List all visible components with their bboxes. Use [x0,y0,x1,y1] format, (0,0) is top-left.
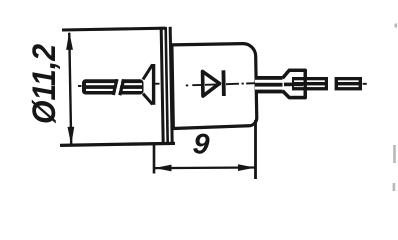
extension line top (flange diameter dim) [62,28,165,30]
wire axis dash-dot inside body [186,83,256,85]
wire axis tail dash [363,83,367,85]
extension line bottom (flange diameter dim) [60,143,175,145]
flange line 2 [166,27,168,143]
cathode flexible wire segment 2 [335,77,362,90]
cathode flexible wire segment 1 [292,77,328,90]
crimp sleeve outline restroke [283,70,306,97]
right pin (cathode lead stub) [255,76,285,93]
scan artifact marks right edge [393,24,397,192]
diode symbol VD1 cathode bar [222,70,226,96]
lead flare cone into flange [143,64,154,105]
dim 9: right extension line [254,120,257,179]
flange line 3 [170,27,172,143]
wire axis dash-dot segments (left lead and flange crossing) [78,84,160,86]
diode case body VD1 [172,43,257,128]
left lead wire (anode lead) [82,78,144,96]
crimp sleeve on cathode lead [283,70,306,97]
dimension arrow up [66,32,73,50]
left lead break mark [116,78,120,96]
dimension line for diameter 11,2 [69,33,71,144]
dimension arrow down [67,127,74,145]
cathode lead core through sleeve [284,83,303,87]
dim 9: left extension line [153,144,156,174]
diode symbol VD1 anode triangle [203,71,220,96]
svg-text:9: 9 [191,128,210,162]
svg-text:Ø11,2: Ø11,2 [26,44,62,124]
dim 9: dimension line [155,166,255,169]
flange line 1 [161,27,163,143]
dim 9: arrow right [238,164,255,171]
dim 9: arrow left [155,165,172,172]
